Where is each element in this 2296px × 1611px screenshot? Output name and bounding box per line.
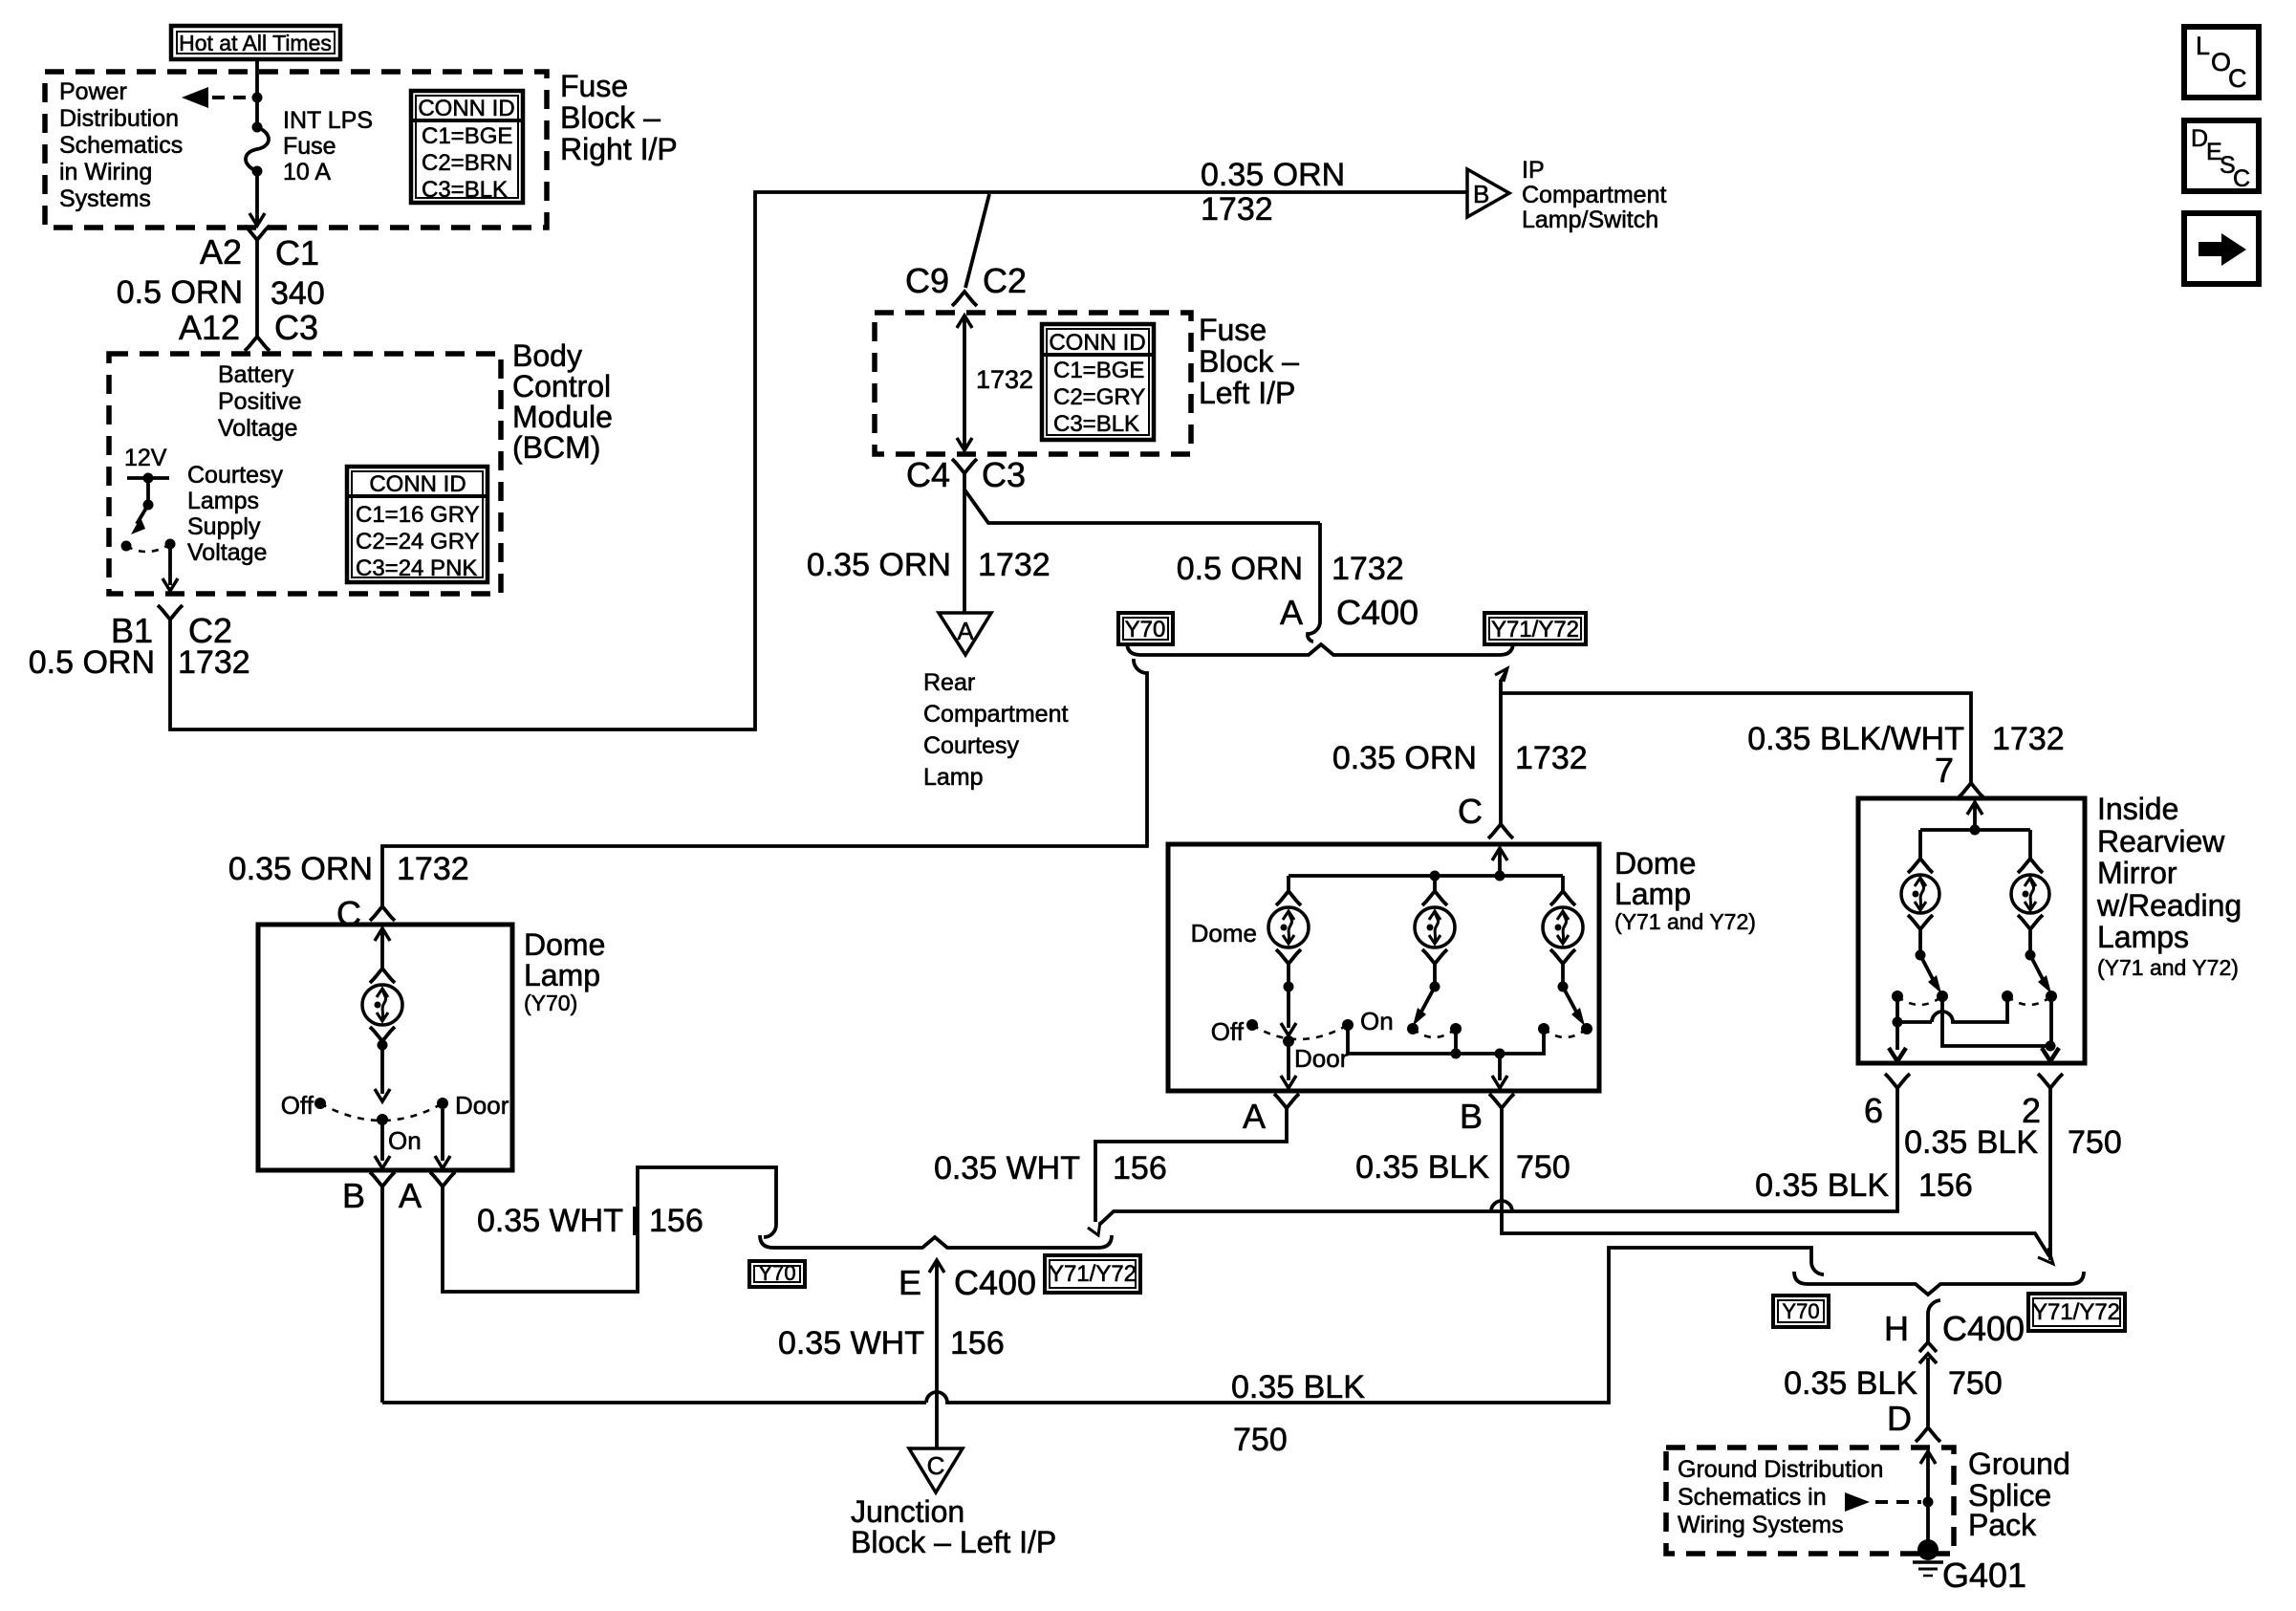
wire into dome lamp with arrow — [375, 928, 390, 969]
svg-text:C3: C3 — [274, 308, 318, 347]
switch pivot dot — [377, 1114, 388, 1125]
wire Y71/Y72 side from C400 — [1495, 668, 1507, 823]
svg-text:CONN ID: CONN ID — [369, 471, 466, 497]
svg-text:C1=BGE: C1=BGE — [422, 123, 512, 149]
svg-text:Mirror: Mirror — [2097, 856, 2177, 890]
switch contact On — [1342, 1007, 1394, 1035]
fuse value label INT LPS Fuse 10 A — [283, 107, 373, 185]
wire through fuse block with arrows — [957, 316, 972, 450]
svg-text:(Y71 and Y72): (Y71 and Y72) — [2097, 955, 2239, 980]
dome lamp Y70 box — [258, 925, 512, 1170]
wire pin 6 to connector E C400 — [1099, 1088, 1897, 1225]
svg-text:in Wiring: in Wiring — [59, 159, 152, 185]
nav box LOC — [2184, 27, 2259, 98]
svg-text:Schematics: Schematics — [59, 132, 183, 159]
connector C9/C2 — [952, 292, 977, 306]
wire C4 down to triangle A — [963, 473, 966, 613]
svg-text:Voltage: Voltage — [187, 539, 267, 566]
switch blade right lamp — [1558, 964, 1586, 1026]
branch wire to connector A C400 — [964, 490, 1320, 523]
switch stem — [143, 478, 154, 511]
arrowhead into E brace — [1088, 1222, 1100, 1235]
svg-text:Courtesy: Courtesy — [187, 462, 284, 489]
label Ground Splice Pack — [1968, 1447, 2070, 1542]
svg-text:Lamps: Lamps — [2097, 920, 2189, 954]
label Junction Block - Left I/P — [851, 1494, 1056, 1559]
svg-text:Door: Door — [1294, 1044, 1349, 1073]
diagonal wire to C9 — [965, 194, 989, 288]
label box Y71/Y72 — [1045, 1255, 1140, 1293]
label Dome Lamp (Y71 and Y72) — [1614, 846, 1756, 934]
svg-text:0.5 ORN: 0.5 ORN — [117, 274, 243, 311]
switch blade arrow — [131, 505, 148, 534]
connector C4/C3 — [952, 459, 977, 473]
svg-text:On: On — [1360, 1007, 1394, 1035]
svg-text:0.35 WHT: 0.35 WHT — [934, 1150, 1080, 1186]
svg-text:A12: A12 — [179, 308, 240, 347]
wire contact to return bus — [1454, 1029, 1458, 1054]
svg-text:IP: IP — [1522, 157, 1545, 184]
svg-text:C400: C400 — [954, 1263, 1036, 1302]
svg-text:1732: 1732 — [1992, 721, 2065, 757]
svg-text:156: 156 — [950, 1325, 1005, 1361]
wire left common down and across — [1942, 996, 2056, 1052]
branch wire to mirror connector 7 — [1501, 693, 1971, 783]
svg-text:750: 750 — [1516, 1149, 1570, 1186]
label IP Compartment Lamp/Switch — [1522, 157, 1666, 233]
label box Hot at All Times — [171, 26, 340, 59]
svg-text:Control: Control — [512, 369, 611, 403]
switch contact Off — [281, 1091, 326, 1120]
connector pin D — [1887, 1399, 1940, 1442]
svg-text:Module: Module — [512, 400, 613, 434]
svg-text:Inside: Inside — [2097, 792, 2178, 826]
svg-text:Fuse: Fuse — [1199, 313, 1267, 347]
svg-text:750: 750 — [1233, 1422, 1288, 1458]
label separator bar — [633, 1207, 637, 1235]
svg-text:10 A: 10 A — [283, 159, 331, 185]
wire bulb to switch — [375, 1040, 390, 1102]
svg-text:C1: C1 — [275, 233, 319, 272]
svg-text:w/Reading: w/Reading — [2096, 888, 2242, 923]
svg-text:1732: 1732 — [978, 547, 1051, 583]
fuse INT LPS 10 A — [246, 122, 269, 177]
wire to dome bulb — [1287, 876, 1290, 892]
svg-text:Door: Door — [455, 1091, 509, 1120]
svg-text:C2=GRY: C2=GRY — [1053, 384, 1145, 410]
wire bulb to switch blade — [1281, 964, 1296, 1035]
note Battery Positive Voltage — [218, 361, 302, 442]
svg-text:Rear: Rear — [923, 669, 975, 696]
svg-text:C: C — [1458, 792, 1483, 831]
svg-text:340: 340 — [271, 275, 325, 312]
svg-text:L: L — [2196, 32, 2210, 60]
svg-text:CONN ID: CONN ID — [418, 96, 514, 121]
svg-text:0.35 ORN: 0.35 ORN — [807, 547, 951, 583]
svg-text:Lamps: Lamps — [187, 488, 259, 514]
ground G401 symbol — [1913, 1539, 1943, 1576]
svg-text:Courtesy: Courtesy — [923, 732, 1020, 759]
svg-text:156: 156 — [649, 1203, 704, 1239]
svg-text:C2=24 GRY: C2=24 GRY — [356, 529, 480, 555]
connector pin B — [1460, 1094, 1514, 1136]
wire to right reading bulb — [2028, 830, 2032, 858]
svg-text:Pack: Pack — [1968, 1508, 2037, 1542]
wire down to connector A C400 with hook — [1308, 523, 1320, 642]
svg-text:C1=BGE: C1=BGE — [1053, 358, 1144, 383]
svg-text:Wiring Systems: Wiring Systems — [1678, 1512, 1844, 1538]
connector C400 brace — [1127, 642, 1513, 655]
switch dashed arc — [126, 544, 170, 552]
wire pin 2 to connector H C400 — [2048, 1088, 2052, 1260]
svg-text:C400: C400 — [1942, 1309, 2025, 1348]
bulb right reading lamp — [1543, 891, 1583, 964]
svg-text:Body: Body — [512, 338, 582, 373]
svg-text:0.35 BLK: 0.35 BLK — [1355, 1149, 1489, 1186]
svg-text:750: 750 — [2068, 1124, 2122, 1161]
switch pivot dot — [1283, 1035, 1294, 1047]
svg-text:E: E — [899, 1263, 921, 1302]
connector pin 7 at mirror — [1935, 751, 1983, 797]
wire return bus to pin B with arrow — [1492, 1054, 1507, 1088]
svg-text:A: A — [399, 1176, 422, 1215]
return bus — [1348, 1029, 1544, 1059]
label Fuse Block - Right I/P — [560, 69, 678, 166]
svg-text:1732: 1732 — [178, 644, 250, 681]
label box Y70 — [1118, 613, 1173, 644]
svg-text:Dome: Dome — [524, 927, 605, 962]
wire to left reading bulb — [1918, 830, 1922, 858]
bulb mirror right reading lamp — [2011, 859, 2049, 929]
svg-text:C2: C2 — [983, 261, 1027, 300]
svg-text:Compartment: Compartment — [1522, 182, 1666, 208]
switch contacts mirror left — [1892, 991, 1948, 1002]
svg-text:C: C — [336, 894, 361, 933]
label box Y71/Y72 — [1484, 613, 1586, 644]
label Rear Compartment Courtesy Lamp — [923, 669, 1068, 791]
connector pin B — [342, 1172, 395, 1215]
svg-text:INT LPS: INT LPS — [283, 107, 373, 134]
svg-text:Hot at All Times: Hot at All Times — [179, 31, 332, 55]
svg-text:0.35 BLK: 0.35 BLK — [1784, 1365, 1917, 1402]
switch contacts middle lamp — [1407, 1023, 1462, 1034]
svg-text:Y70: Y70 — [758, 1261, 795, 1285]
svg-text:Block –: Block – — [1199, 344, 1299, 379]
svg-text:On: On — [388, 1126, 422, 1155]
svg-text:7: 7 — [1935, 751, 1954, 790]
svg-text:Y71/Y72: Y71/Y72 — [2032, 1299, 2120, 1325]
connector pin 6 — [1864, 1074, 1910, 1130]
connector A2/C1 to A12/C3 — [245, 226, 270, 351]
svg-text:CONN ID: CONN ID — [1049, 330, 1145, 356]
connector pin A — [399, 1172, 455, 1215]
connector pin 2 — [2022, 1074, 2063, 1130]
svg-text:0.35 WHT: 0.35 WHT — [778, 1325, 924, 1361]
svg-text:Y70: Y70 — [1125, 617, 1166, 642]
switch contacts mirror right — [2002, 991, 2057, 1002]
svg-text:Dome: Dome — [1191, 919, 1257, 947]
arrowhead into H brace — [2038, 1248, 2053, 1264]
svg-text:Lamp: Lamp — [923, 764, 984, 791]
svg-text:1732: 1732 — [976, 365, 1033, 394]
svg-text:0.35 ORN: 0.35 ORN — [1332, 740, 1477, 776]
svg-text:Dome: Dome — [1614, 846, 1696, 881]
wire contact to pin 6 — [1893, 996, 1903, 1028]
wire with arrow to fuse block edge — [249, 171, 265, 226]
bulb mirror left reading lamp — [1901, 859, 1939, 929]
wire pivot to pin A with arrow — [1281, 1041, 1296, 1088]
bulb dome — [1268, 891, 1309, 964]
svg-text:0.5 ORN: 0.5 ORN — [1177, 551, 1303, 587]
svg-text:Compartment: Compartment — [923, 701, 1068, 728]
svg-text:1732: 1732 — [1332, 551, 1404, 587]
svg-text:0.5 ORN: 0.5 ORN — [29, 644, 155, 681]
CONN ID table (fuse block left) — [1042, 324, 1154, 440]
wire — [255, 98, 259, 127]
svg-text:1732: 1732 — [1201, 191, 1273, 228]
svg-text:Y71/Y72: Y71/Y72 — [1049, 1261, 1137, 1287]
switch supply bar — [127, 473, 169, 484]
switch dashed arc — [2007, 996, 2051, 1005]
wire to IP compartment lamp — [989, 190, 1467, 194]
switch dashed arc — [320, 1103, 443, 1121]
junction dot — [252, 93, 263, 103]
label Dome Lamp (Y70) — [524, 927, 605, 1015]
svg-text:C9: C9 — [905, 261, 949, 300]
wire On to pin B with arrow — [375, 1120, 390, 1168]
svg-text:Ground: Ground — [1968, 1447, 2070, 1481]
note Ground Distribution Schematics in Wiring Systems — [1678, 1456, 1883, 1538]
svg-text:Ground Distribution: Ground Distribution — [1678, 1456, 1883, 1483]
wire into mirror with arrow — [1967, 802, 1982, 836]
svg-text:Rearview: Rearview — [2097, 824, 2225, 859]
inside rearview mirror box — [1858, 798, 2085, 1063]
svg-text:A: A — [1280, 593, 1303, 632]
svg-text:B: B — [1460, 1097, 1483, 1136]
svg-text:Battery: Battery — [218, 361, 294, 388]
svg-text:750: 750 — [1948, 1365, 2003, 1402]
svg-text:C2=BRN: C2=BRN — [422, 150, 512, 176]
triangle connector B — [1467, 169, 1509, 217]
svg-text:H: H — [1884, 1309, 1909, 1348]
bulb dome lamp Y70 — [362, 969, 402, 1041]
svg-text:B: B — [342, 1176, 365, 1215]
svg-text:Junction: Junction — [851, 1494, 964, 1529]
svg-text:Block –: Block – — [560, 100, 661, 135]
svg-text:C400: C400 — [1336, 593, 1419, 632]
label box Y71/Y72 — [2028, 1294, 2125, 1331]
switch contact dot — [121, 541, 132, 552]
connector pin A — [1243, 1094, 1299, 1136]
svg-text:0.35 BLK: 0.35 BLK — [1231, 1369, 1365, 1405]
svg-text:156: 156 — [1918, 1167, 1973, 1204]
wire pin 6 with arrow — [1889, 1022, 1906, 1061]
svg-text:D: D — [1887, 1399, 1912, 1438]
svg-text:C3=24 PNK: C3=24 PNK — [356, 555, 477, 581]
fuse block left I/P dashed box — [875, 313, 1191, 454]
svg-text:1732: 1732 — [1515, 740, 1588, 776]
wire pin B to ground net — [380, 1186, 384, 1403]
switch dashed arc — [1544, 1029, 1587, 1037]
svg-text:Left I/P: Left I/P — [1199, 376, 1295, 410]
note Courtesy Lamps Supply Voltage — [187, 462, 284, 566]
svg-text:(Y70): (Y70) — [524, 991, 577, 1015]
connector C at dome lamp Y71/Y72 — [1488, 824, 1513, 838]
wire B1 to top feed line — [170, 192, 989, 729]
wire to right reading bulb — [1561, 876, 1565, 892]
svg-text:C4: C4 — [906, 455, 950, 494]
svg-text:C1=16 GRY: C1=16 GRY — [356, 502, 480, 528]
wire pin B to connector H C400 — [1502, 1108, 2049, 1256]
nav box DESC — [2184, 120, 2259, 192]
switch blade mirror right — [2025, 930, 2052, 993]
feed bus — [1289, 871, 1563, 882]
svg-text:0.35 ORN: 0.35 ORN — [1201, 157, 1345, 193]
fuse block right I/P dashed box — [45, 72, 547, 228]
svg-text:A: A — [957, 617, 974, 645]
svg-text:Fuse: Fuse — [283, 133, 336, 160]
svg-text:Positive: Positive — [218, 388, 302, 415]
bulb middle reading lamp — [1415, 891, 1455, 964]
svg-text:C3=BLK: C3=BLK — [422, 177, 508, 203]
dashed reference arrow — [1845, 1492, 1921, 1512]
svg-text:G401: G401 — [1942, 1556, 2026, 1595]
svg-text:0.35 BLK: 0.35 BLK — [1755, 1167, 1889, 1204]
svg-text:C3: C3 — [982, 455, 1026, 494]
svg-text:Systems: Systems — [59, 185, 151, 212]
switch blade mirror left — [1916, 930, 1942, 993]
switch dashed arc — [1897, 996, 1942, 1005]
svg-text:Supply: Supply — [187, 513, 261, 540]
svg-text:0.35 BLK/WHT: 0.35 BLK/WHT — [1747, 721, 1964, 757]
switch contact Door — [437, 1091, 509, 1120]
svg-text:0.35 BLK: 0.35 BLK — [1904, 1124, 2038, 1161]
connector C400 brace (H) — [1794, 1272, 2084, 1295]
switch blade middle lamp — [1413, 964, 1440, 1026]
label box Y70 — [1773, 1295, 1829, 1327]
svg-text:Distribution: Distribution — [59, 105, 179, 132]
svg-text:C: C — [927, 1451, 945, 1480]
connector C at dome lamp Y70 — [370, 906, 395, 921]
ground splice pack dashed box — [1666, 1448, 1954, 1554]
svg-text:Y70: Y70 — [1782, 1299, 1819, 1323]
wire On contact to return bus — [1346, 1025, 1350, 1054]
label Inside Rearview Mirror w/Reading Lamps (Y71 and Y72) — [2096, 792, 2242, 980]
wire pin A to connector E C400 — [1095, 1108, 1287, 1222]
svg-text:Off: Off — [1211, 1017, 1245, 1046]
svg-text:Lamp/Switch: Lamp/Switch — [1522, 207, 1658, 233]
svg-text:B: B — [1473, 180, 1489, 208]
wire BLK 750 bus — [382, 1248, 1824, 1403]
svg-text:(BCM): (BCM) — [512, 430, 600, 465]
triangle connector A — [939, 613, 991, 655]
switch dashed arc — [1413, 1029, 1456, 1037]
wire into dome lamp with arrow — [1492, 848, 1507, 876]
svg-text:1732: 1732 — [397, 851, 469, 887]
svg-text:Block – Left I/P: Block – Left I/P — [851, 1525, 1056, 1559]
svg-text:C3=BLK: C3=BLK — [1053, 411, 1139, 437]
svg-text:Lamp: Lamp — [1614, 877, 1691, 911]
wire E to junction block with arrow — [929, 1260, 944, 1448]
wire Door to pin A with arrow — [435, 1109, 450, 1168]
switch output dot — [165, 539, 176, 550]
connector B1/C2 — [158, 605, 183, 620]
nav box forward arrow — [2184, 213, 2259, 284]
svg-text:156: 156 — [1113, 1150, 1167, 1186]
wire with arrow to BCM edge — [162, 544, 178, 591]
note Power Distribution Schematics in Wiring Systems — [59, 78, 183, 212]
connector C400 brace (E) — [760, 1235, 1112, 1248]
body control module dashed box — [109, 354, 501, 594]
svg-text:C: C — [2233, 165, 2250, 192]
dome lamp Y71/Y72 box — [1168, 844, 1599, 1091]
svg-text:A2: A2 — [200, 232, 242, 272]
label Fuse Block - Left I/P — [1199, 313, 1299, 410]
svg-text:12V: 12V — [124, 445, 167, 471]
svg-text:Fuse: Fuse — [560, 69, 628, 103]
svg-text:Power: Power — [59, 78, 127, 105]
svg-text:0.35 ORN: 0.35 ORN — [228, 851, 373, 887]
wire from Hot at All Times into fuse block — [255, 59, 259, 98]
label box Y70 — [749, 1261, 805, 1287]
CONN ID table (fuse block right) — [411, 91, 523, 203]
label Body Control Module (BCM) — [512, 338, 613, 465]
switch dashed arc — [1252, 1025, 1348, 1039]
wire pin A to connector E C400 — [443, 1167, 776, 1292]
switch contact Off — [1211, 1017, 1258, 1046]
svg-text:C: C — [2228, 64, 2247, 93]
wire right common to pin 2 with arrow — [2042, 996, 2059, 1061]
svg-text:6: 6 — [1864, 1091, 1883, 1130]
svg-text:A: A — [1243, 1097, 1266, 1136]
CONN ID table (BCM) — [347, 467, 487, 582]
dashed reference arrow — [182, 87, 247, 108]
svg-text:Off: Off — [281, 1091, 314, 1120]
mirror feed bus — [1920, 828, 2030, 832]
svg-text:Voltage: Voltage — [218, 415, 297, 442]
svg-text:(Y71 and Y72): (Y71 and Y72) — [1614, 909, 1756, 934]
svg-text:Y71/Y72: Y71/Y72 — [1491, 617, 1579, 642]
crossover wire to right Off contact — [1897, 996, 2007, 1022]
switch contacts right lamp — [1538, 1023, 1592, 1034]
svg-text:Lamp: Lamp — [524, 958, 600, 992]
wire Y70 side from C400 to dome lamp — [382, 659, 1147, 906]
wire into splice pack with arrow — [1920, 1451, 1936, 1545]
wire H to ground splice pack — [1919, 1300, 1940, 1427]
svg-text:Right I/P: Right I/P — [560, 132, 678, 166]
triangle connector C — [909, 1448, 963, 1492]
wire to middle reading bulb — [1433, 876, 1437, 892]
svg-text:Schematics in: Schematics in — [1678, 1484, 1827, 1511]
svg-text:0.35 WHT: 0.35 WHT — [477, 1203, 623, 1239]
